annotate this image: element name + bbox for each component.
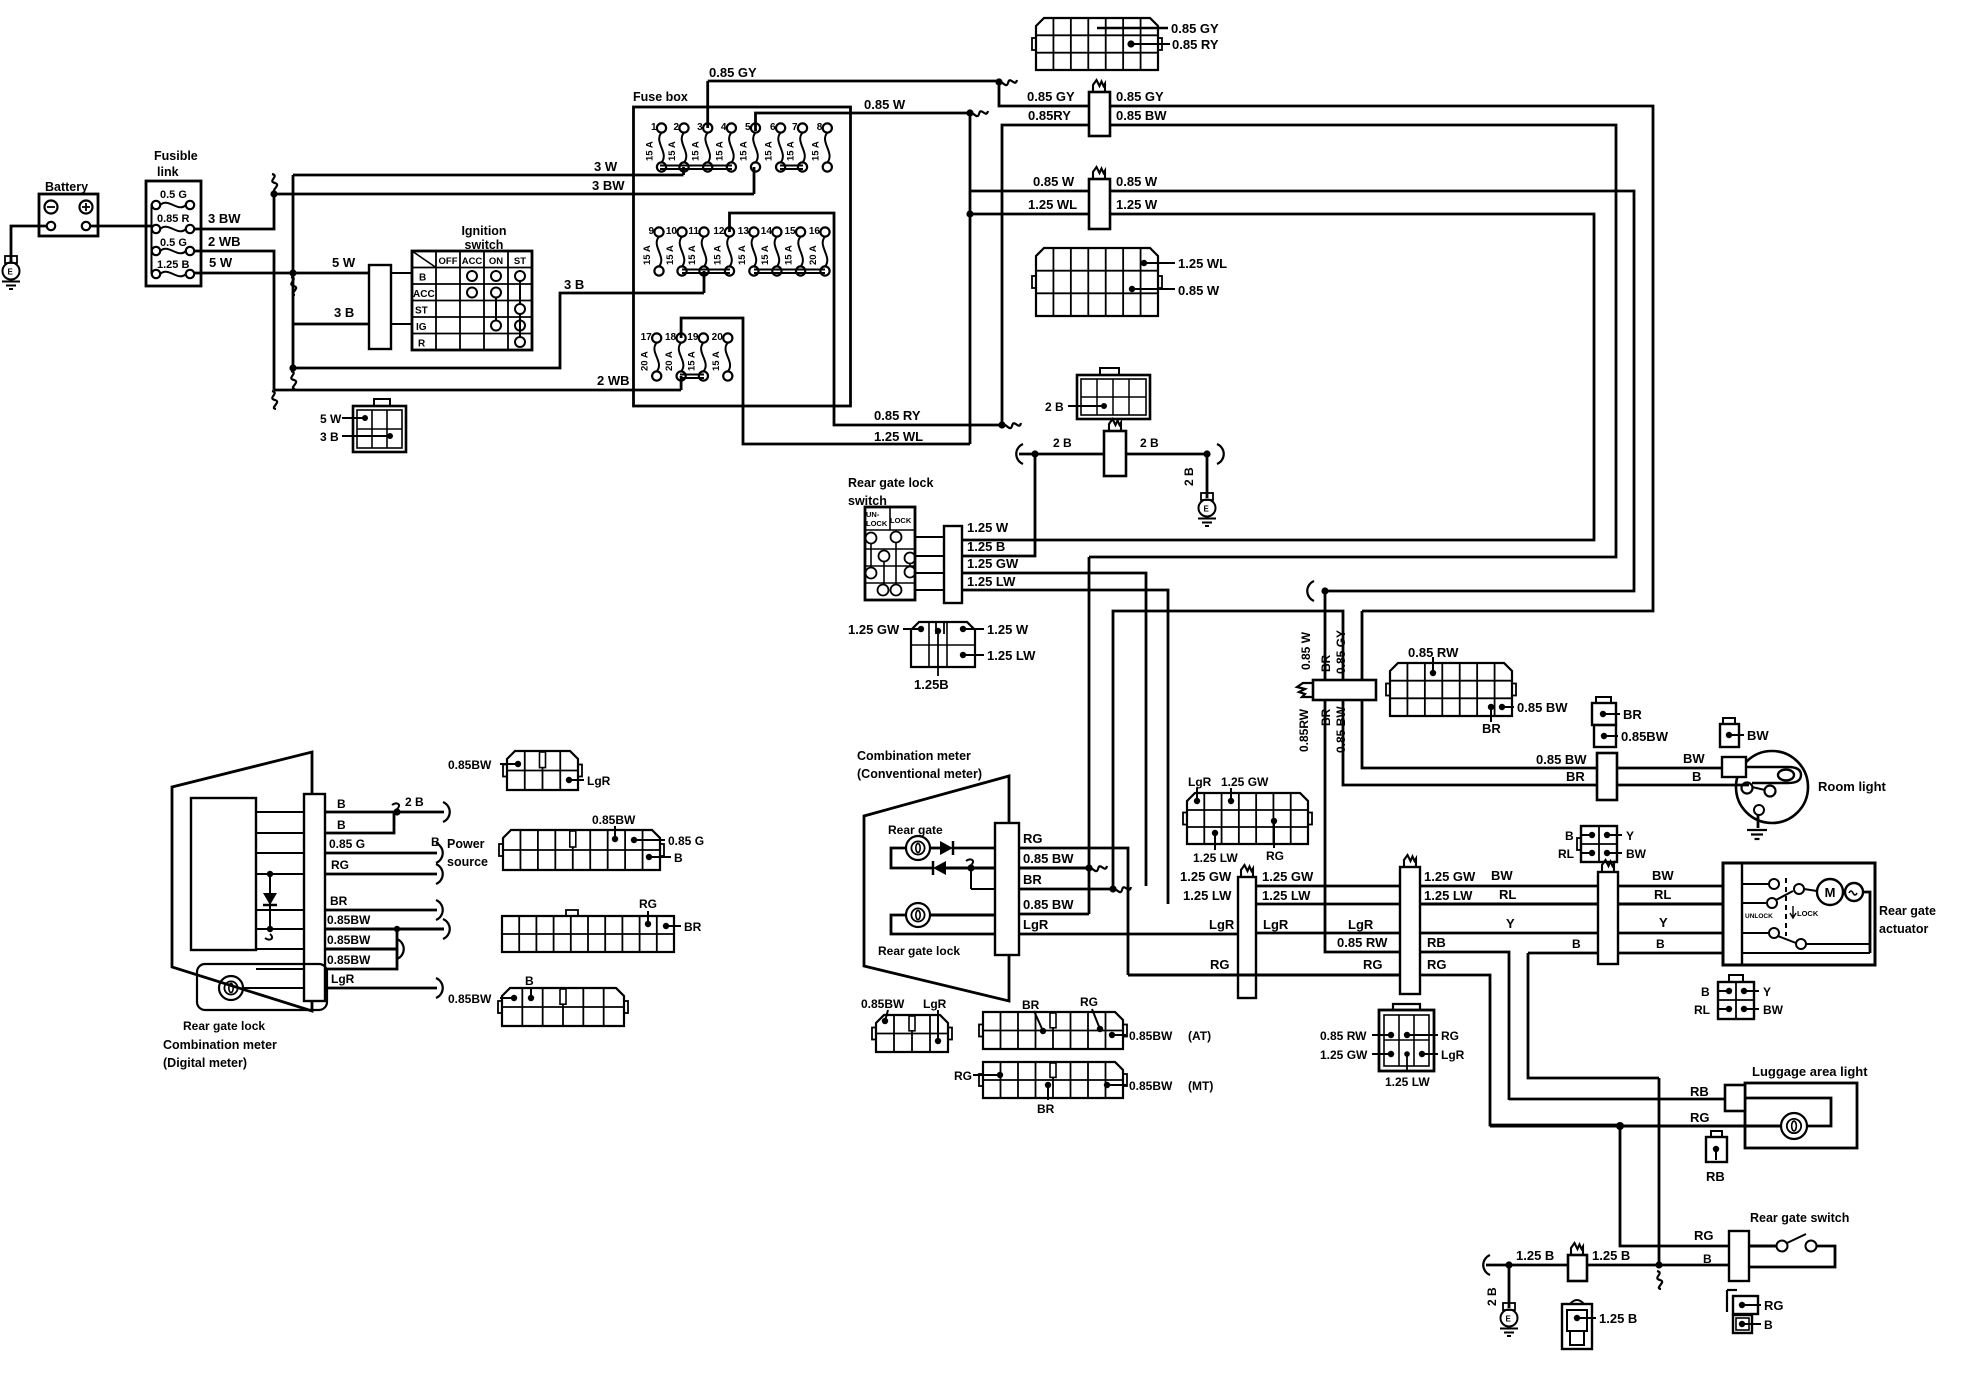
- svg-text:3 B: 3 B: [564, 277, 584, 292]
- wire 0.85BW right: [1089, 125, 1616, 557]
- svg-text:10: 10: [666, 226, 678, 237]
- svg-text:2 B: 2 B: [1045, 400, 1064, 414]
- lead 0.85W 18pin: [1129, 286, 1175, 292]
- room light entry box: [1722, 757, 1746, 777]
- junction 3B: [289, 364, 296, 371]
- svg-text:20 A: 20 A: [640, 351, 651, 371]
- label B 4pin2: [1701, 985, 1710, 999]
- label 0.85RW mid: [1337, 935, 1388, 950]
- junction 1.25WL: [966, 210, 973, 217]
- label 0.85BW small conn: [861, 997, 905, 1011]
- svg-text:15 A: 15 A: [810, 141, 821, 161]
- svg-text:Room light: Room light: [1818, 779, 1887, 794]
- ignition header ON: [489, 256, 503, 267]
- svg-text:2 B: 2 B: [1053, 436, 1072, 450]
- label BR dig: [330, 894, 348, 908]
- wire 0.85BW vertical: [1088, 557, 1091, 914]
- label 0.85W vert: [1299, 631, 1313, 670]
- label B1 dig: [337, 797, 346, 811]
- label RG rgsw: [1694, 1228, 1714, 1243]
- lead 0.85BW small conn: [882, 1010, 888, 1024]
- svg-text:1.25 B: 1.25 B: [157, 259, 189, 271]
- breakaway 0.85W: [970, 111, 988, 116]
- wire BW act: [1618, 885, 1723, 888]
- diode digital: [263, 871, 277, 940]
- svg-text:ACC: ACC: [413, 289, 435, 300]
- svg-text:15 A: 15 A: [737, 245, 748, 265]
- ground room light: [1747, 830, 1767, 839]
- rear gate actuator box: [1723, 863, 1875, 965]
- svg-text:0.85 G: 0.85 G: [329, 837, 365, 851]
- fusible link label: [154, 149, 198, 179]
- wire BR bridge: [1113, 611, 1597, 889]
- label 1.25W conn2 right: [1116, 197, 1158, 212]
- wire 1.25WL from fuse18: [681, 318, 970, 444]
- lead B connB: [646, 854, 671, 860]
- svg-text:15 A: 15 A: [760, 245, 771, 265]
- lead LgR 6pin: [1419, 1051, 1438, 1057]
- label RB luggage: [1690, 1084, 1709, 1099]
- lead BR MT: [1045, 1082, 1051, 1100]
- svg-text:1.25 W: 1.25 W: [987, 622, 1029, 637]
- svg-text:3: 3: [697, 122, 703, 133]
- label B room: [1692, 769, 1701, 784]
- label RG bar1 left: [1210, 957, 1230, 972]
- breakaway 1.25B left: [1483, 1255, 1490, 1275]
- fusible link F3 0.5G: [152, 237, 194, 255]
- connector D digital: [498, 988, 628, 1026]
- wire 2B ground drop: [1508, 1265, 1511, 1308]
- wire RG luggage: [1490, 1125, 1781, 1128]
- wire 3W riser: [682, 167, 685, 175]
- rear gate lock switch label: [848, 476, 934, 508]
- breakaway BR dig: [436, 900, 443, 920]
- svg-text:5 W: 5 W: [320, 412, 342, 426]
- svg-text:15 A: 15 A: [687, 245, 698, 265]
- svg-text:1.25 B: 1.25 B: [1516, 1248, 1554, 1263]
- ignition switch table: [412, 251, 532, 350]
- svg-text:ON: ON: [489, 256, 503, 267]
- svg-text:Rear gate: Rear gate: [888, 823, 943, 837]
- label 1.25WL 18pin: [1178, 256, 1227, 271]
- svg-text:5 W: 5 W: [209, 255, 233, 270]
- lead BR 18pin: [1488, 704, 1494, 722]
- wire 3B riser: [703, 271, 706, 293]
- fuse bus 6-7: [780, 166, 803, 170]
- svg-text:15 A: 15 A: [711, 351, 722, 371]
- svg-text:5: 5: [745, 122, 751, 133]
- label 1.25B left: [1516, 1248, 1554, 1263]
- lead 0.85BW AT: [1109, 1032, 1126, 1038]
- svg-text:Rear gate lock: Rear gate lock: [848, 476, 934, 490]
- svg-text:OFF: OFF: [439, 256, 458, 267]
- label 5W conn: [320, 412, 342, 426]
- wire RG conv: [1019, 848, 1128, 975]
- wire 3BW: [194, 194, 274, 229]
- label 3B conn: [320, 430, 339, 444]
- breakaway BW2 dig: [397, 939, 404, 959]
- svg-text:RG: RG: [1363, 957, 1383, 972]
- rear gate switch bar: [1729, 1231, 1749, 1281]
- wire ignition B row: [391, 272, 412, 274]
- svg-text:RG: RG: [1080, 995, 1098, 1009]
- label RG AT: [1080, 995, 1098, 1009]
- ignition row B: [419, 273, 426, 284]
- wire RL act: [1618, 903, 1723, 906]
- connector 18pin LgR: [1183, 793, 1312, 844]
- wire 1.25LW rgls: [962, 590, 1168, 904]
- svg-text:0.85BW: 0.85BW: [1621, 729, 1669, 744]
- label RL 4pin2: [1694, 1003, 1710, 1017]
- label 0.85RY conn1 left: [1028, 108, 1071, 123]
- label 0.85RW 18pin: [1408, 645, 1459, 660]
- svg-text:Fuse box: Fuse box: [633, 90, 688, 104]
- svg-text:0.85 GY: 0.85 GY: [1116, 89, 1164, 104]
- wire vertical x970: [969, 113, 972, 444]
- connector 6pin: [1379, 1004, 1434, 1071]
- connector 12pin top: [1032, 18, 1162, 70]
- svg-text:RG: RG: [1023, 831, 1043, 846]
- wire RG switch drop: [1620, 1125, 1729, 1246]
- label 2WB fusebox: [597, 373, 630, 388]
- wire rgsw RG contact: [1749, 1234, 1817, 1252]
- svg-text:2 WB: 2 WB: [597, 373, 630, 388]
- svg-text:(AT): (AT): [1188, 1029, 1211, 1043]
- svg-text:RG: RG: [954, 1069, 972, 1083]
- svg-text:7: 7: [792, 122, 798, 133]
- connector 5W3B box: [353, 406, 406, 452]
- label 1.25GW 6pin: [1320, 1048, 1368, 1062]
- lead 0.85RW 18pin: [1430, 657, 1436, 676]
- connector 0.85BW small: [1594, 725, 1618, 747]
- comb meter digital display: [191, 798, 256, 950]
- wire RG corner: [1420, 975, 1620, 1125]
- label 3B ignition: [334, 305, 354, 320]
- connector RB: [1706, 1137, 1727, 1162]
- svg-text:Combination meter: Combination meter: [163, 1038, 277, 1052]
- fuse bus 10-12: [682, 270, 730, 274]
- rear gate lock switch bar: [944, 526, 962, 603]
- wire 085G dig: [256, 852, 437, 854]
- wire lamp2 right: [930, 914, 995, 917]
- junction 2B left: [1031, 450, 1038, 457]
- svg-text:B: B: [1572, 937, 1581, 951]
- breakaway 3B: [291, 371, 296, 389]
- svg-text:BW: BW: [1683, 751, 1705, 766]
- connector BR: [1592, 703, 1620, 725]
- wire 5W: [194, 272, 369, 275]
- connector 2B box: [1077, 375, 1150, 419]
- wire 0.85GY right: [1110, 106, 1653, 611]
- svg-text:0.85 W: 0.85 W: [864, 97, 906, 112]
- svg-text:0.85BW: 0.85BW: [592, 813, 636, 827]
- battery: [39, 194, 98, 236]
- actuator loop: [1806, 892, 1870, 953]
- svg-text:16: 16: [809, 226, 821, 237]
- label BW2 dig: [327, 933, 371, 947]
- wire BR dig: [256, 909, 437, 911]
- label 0.85RY: [874, 408, 921, 423]
- wire 0.85GY top: [708, 80, 999, 83]
- svg-text:1.25 LW: 1.25 LW: [1424, 888, 1473, 903]
- label 0.85GY vert: [1334, 630, 1348, 674]
- svg-text:3 B: 3 B: [334, 305, 354, 320]
- wire RG dig: [256, 873, 437, 875]
- svg-text:Power: Power: [447, 837, 485, 851]
- label B power: [431, 835, 440, 849]
- connector 2B tab: [1100, 368, 1119, 375]
- connector 0.85BW LgR: [872, 1015, 952, 1052]
- svg-text:8: 8: [817, 122, 823, 133]
- label 1.25LW mid: [1262, 888, 1311, 903]
- wire 1.25B left: [1486, 1264, 1568, 1267]
- wire 2B right: [1126, 453, 1207, 456]
- label BW1 dig: [327, 913, 371, 927]
- label 2B ground: [1182, 467, 1196, 486]
- lead 1.25GW 6pin: [1372, 1051, 1394, 1057]
- lead 0.85RY 12pin: [1127, 40, 1170, 47]
- lead RG MT: [973, 1072, 1003, 1078]
- label B connD: [525, 974, 534, 988]
- fuse 3 15A: [691, 122, 713, 172]
- label RG right: [1427, 957, 1447, 972]
- label Y 4pin2: [1763, 985, 1771, 999]
- label 0.85BW connA: [448, 758, 492, 772]
- svg-text:3 BW: 3 BW: [592, 178, 625, 193]
- svg-text:RG: RG: [1764, 1298, 1784, 1313]
- svg-text:0.85BW: 0.85BW: [448, 992, 492, 1006]
- label B pair: [1764, 1318, 1773, 1332]
- wire rgsw loop: [1749, 1246, 1835, 1267]
- wire 0.85BW conv: [1019, 867, 1089, 870]
- label 1.25GW right: [1424, 869, 1476, 884]
- svg-text:BR: BR: [1482, 721, 1501, 736]
- svg-text:0.85 BW: 0.85 BW: [1023, 851, 1074, 866]
- breakaway BW1 dig: [443, 919, 450, 939]
- svg-text:E: E: [1506, 1315, 1512, 1324]
- svg-text:BR: BR: [1023, 872, 1042, 887]
- svg-text:LgR: LgR: [1023, 917, 1049, 932]
- ignition header ACC: [462, 256, 483, 267]
- svg-text:15: 15: [784, 226, 796, 237]
- svg-text:BW: BW: [1763, 1003, 1784, 1017]
- fusible link F1 0.5G: [152, 189, 194, 209]
- svg-text:B: B: [419, 273, 426, 284]
- room light housing: [1746, 767, 1801, 783]
- label 1.25W rgls: [967, 520, 1009, 535]
- label 0.85GY conn1 right: [1116, 89, 1164, 104]
- luggage lamp: [1781, 1113, 1807, 1139]
- svg-text:1.25 GW: 1.25 GW: [1424, 869, 1476, 884]
- svg-text:RG: RG: [1210, 957, 1230, 972]
- svg-text:0.85 GY: 0.85 GY: [1027, 89, 1075, 104]
- label 1.25LW 18pin: [1193, 851, 1238, 865]
- svg-text:0.85 W: 0.85 W: [1178, 283, 1220, 298]
- svg-text:Y: Y: [1659, 915, 1668, 930]
- svg-text:BR: BR: [330, 894, 348, 908]
- svg-text:Rear gate lock: Rear gate lock: [183, 1019, 265, 1033]
- label 0.85RW vert: [1297, 708, 1311, 752]
- wire lamp2 left: [891, 915, 995, 934]
- inline connector room: [1597, 753, 1617, 800]
- fuse 15 15A: [784, 226, 806, 276]
- wire LgR mid: [1256, 932, 1400, 935]
- svg-text:1.25 W: 1.25 W: [1116, 197, 1158, 212]
- wire 0.85GY to room: [1362, 611, 1597, 768]
- svg-text:2 B: 2 B: [1182, 467, 1196, 486]
- svg-text:RG: RG: [639, 897, 657, 911]
- label BR vert top: [1319, 654, 1333, 672]
- breakaway 0.85W mid: [1307, 581, 1314, 601]
- svg-text:Ignition: Ignition: [461, 224, 506, 238]
- svg-text:(Digital meter): (Digital meter): [163, 1056, 247, 1070]
- label LgR 18pin: [1188, 775, 1212, 789]
- junction 0.85RY: [998, 421, 1005, 428]
- fuse 20 15A: [711, 332, 733, 381]
- junction 0.85BW: [1085, 864, 1092, 871]
- connector BW: [1720, 724, 1744, 747]
- svg-text:0.85 RW: 0.85 RW: [1337, 935, 1388, 950]
- label 2B wire right: [1140, 436, 1159, 450]
- label 0.85BW connB: [592, 813, 636, 827]
- svg-text:1.25 B: 1.25 B: [967, 539, 1005, 554]
- label 1.25B rgls: [967, 539, 1005, 554]
- svg-text:1.25B: 1.25B: [914, 677, 949, 692]
- svg-text:0.85RW: 0.85RW: [1297, 708, 1311, 752]
- tee junction conv: [966, 859, 995, 889]
- svg-text:20 A: 20 A: [664, 351, 675, 371]
- room light circle: [1736, 751, 1808, 823]
- svg-text:RL: RL: [1654, 887, 1671, 902]
- svg-text:1.25 LW: 1.25 LW: [987, 648, 1036, 663]
- wire 2B to ground: [1206, 454, 1209, 498]
- svg-text:ST: ST: [415, 306, 428, 317]
- label 1.25GW mid: [1262, 869, 1314, 884]
- fusible link box: [146, 181, 201, 286]
- label 1.25WL: [874, 429, 923, 444]
- svg-text:1.25 GW: 1.25 GW: [1180, 869, 1232, 884]
- svg-text:1.25 LW: 1.25 LW: [1262, 888, 1311, 903]
- svg-text:1.25 B: 1.25 B: [1599, 1311, 1637, 1326]
- lead 5W conn: [342, 415, 368, 421]
- svg-text:3 W: 3 W: [594, 159, 618, 174]
- lead 1.25WL 18pin: [1141, 260, 1175, 266]
- svg-text:B: B: [1656, 937, 1665, 951]
- label LgR bar1 left: [1209, 917, 1235, 932]
- wire RB luggage: [1509, 1098, 1725, 1101]
- lead RG 6pin: [1404, 1032, 1438, 1038]
- label RB conn: [1706, 1169, 1725, 1184]
- breakaway 5W: [291, 277, 296, 295]
- inline bar3: [1598, 872, 1618, 964]
- wire room ground: [1757, 815, 1760, 828]
- wire 1.25W right: [962, 214, 1594, 540]
- lead LgR small conn: [935, 1010, 941, 1044]
- connector MT: [979, 1062, 1127, 1098]
- connector 1.25B single: [1562, 1300, 1596, 1349]
- junction 2B right: [1203, 450, 1210, 457]
- svg-text:RB: RB: [1690, 1084, 1709, 1099]
- svg-text:ST: ST: [514, 256, 526, 267]
- actuator unlock label: [1745, 913, 1773, 920]
- svg-text:BW: BW: [1626, 847, 1647, 861]
- label B mid: [1572, 937, 1581, 951]
- lead 1.25LW 6pin: [1404, 1051, 1410, 1072]
- svg-text:E: E: [8, 268, 14, 277]
- inline connector 1.25B: [1568, 1255, 1587, 1281]
- fusible link F4 1.25B: [152, 259, 194, 278]
- breakaway B1: [443, 802, 450, 822]
- comb meter digital label: [163, 1038, 277, 1070]
- ground E 2B: [1198, 493, 1216, 526]
- connector 5W3B tab: [374, 399, 390, 406]
- label 1.25B right: [1592, 1248, 1630, 1263]
- wire diode2 out: [946, 867, 995, 870]
- junction 0.85W: [966, 109, 973, 116]
- wire rgls row4: [915, 589, 944, 591]
- label RG mid: [1363, 957, 1383, 972]
- label 0.85GY top: [709, 65, 757, 80]
- breakaway bar3: [1602, 860, 1614, 872]
- svg-text:LOCK: LOCK: [1797, 909, 1819, 918]
- label BW3 dig: [327, 953, 371, 967]
- fusible link F2 0.85R: [152, 213, 194, 233]
- junction 0.85GY: [995, 78, 1002, 85]
- wire 2WB long: [274, 389, 681, 392]
- svg-text:15 A: 15 A: [667, 141, 678, 161]
- connector AT: [979, 1012, 1127, 1049]
- svg-text:0.85BW: 0.85BW: [448, 758, 492, 772]
- label 0.85BW conn1 right: [1116, 108, 1167, 123]
- label 0.85BW room left: [1536, 752, 1587, 767]
- breakaway wide conn: [1297, 683, 1313, 697]
- ignition row IG: [416, 322, 427, 333]
- connector 1.25B detail: [911, 622, 975, 667]
- breakaway C1 top: [1093, 80, 1105, 92]
- svg-text:E: E: [1204, 505, 1210, 514]
- svg-text:1.25 WL: 1.25 WL: [874, 429, 923, 444]
- svg-text:M: M: [1825, 885, 1836, 900]
- svg-text:B: B: [1701, 985, 1710, 999]
- fuse 9 15A: [642, 226, 664, 276]
- lead LgR connA: [566, 777, 584, 783]
- breakaway bar1: [1241, 865, 1253, 877]
- breakaway 2B conn top: [1109, 419, 1121, 431]
- breakaway 2B left: [1016, 444, 1023, 464]
- label 0.85W conn2 left: [1033, 174, 1075, 189]
- svg-text:LgR: LgR: [1348, 917, 1374, 932]
- svg-text:Fusible: Fusible: [154, 149, 198, 163]
- label 0.85RY 12pin: [1172, 37, 1219, 52]
- svg-text:1.25 GW: 1.25 GW: [1262, 869, 1314, 884]
- svg-text:LOCK: LOCK: [866, 519, 888, 528]
- svg-text:1.25 GW: 1.25 GW: [1320, 1048, 1368, 1062]
- svg-text:RL: RL: [1694, 1003, 1710, 1017]
- wire BR conv: [1019, 888, 1113, 891]
- svg-text:0.5 G: 0.5 G: [160, 237, 187, 249]
- actuator B wire: [1742, 952, 1870, 954]
- wire 3W long: [293, 174, 684, 177]
- fuse box label: [633, 90, 688, 104]
- wire 0.85W riser: [756, 113, 969, 131]
- svg-text:1.25 LW: 1.25 LW: [1193, 851, 1238, 865]
- actuator unlock dash: [1785, 878, 1787, 936]
- label 0.85BW connD: [448, 992, 492, 1006]
- svg-text:3 BW: 3 BW: [208, 211, 241, 226]
- svg-text:ACC: ACC: [462, 256, 483, 267]
- svg-text:source: source: [447, 855, 488, 869]
- fuse 7 15A: [786, 122, 808, 172]
